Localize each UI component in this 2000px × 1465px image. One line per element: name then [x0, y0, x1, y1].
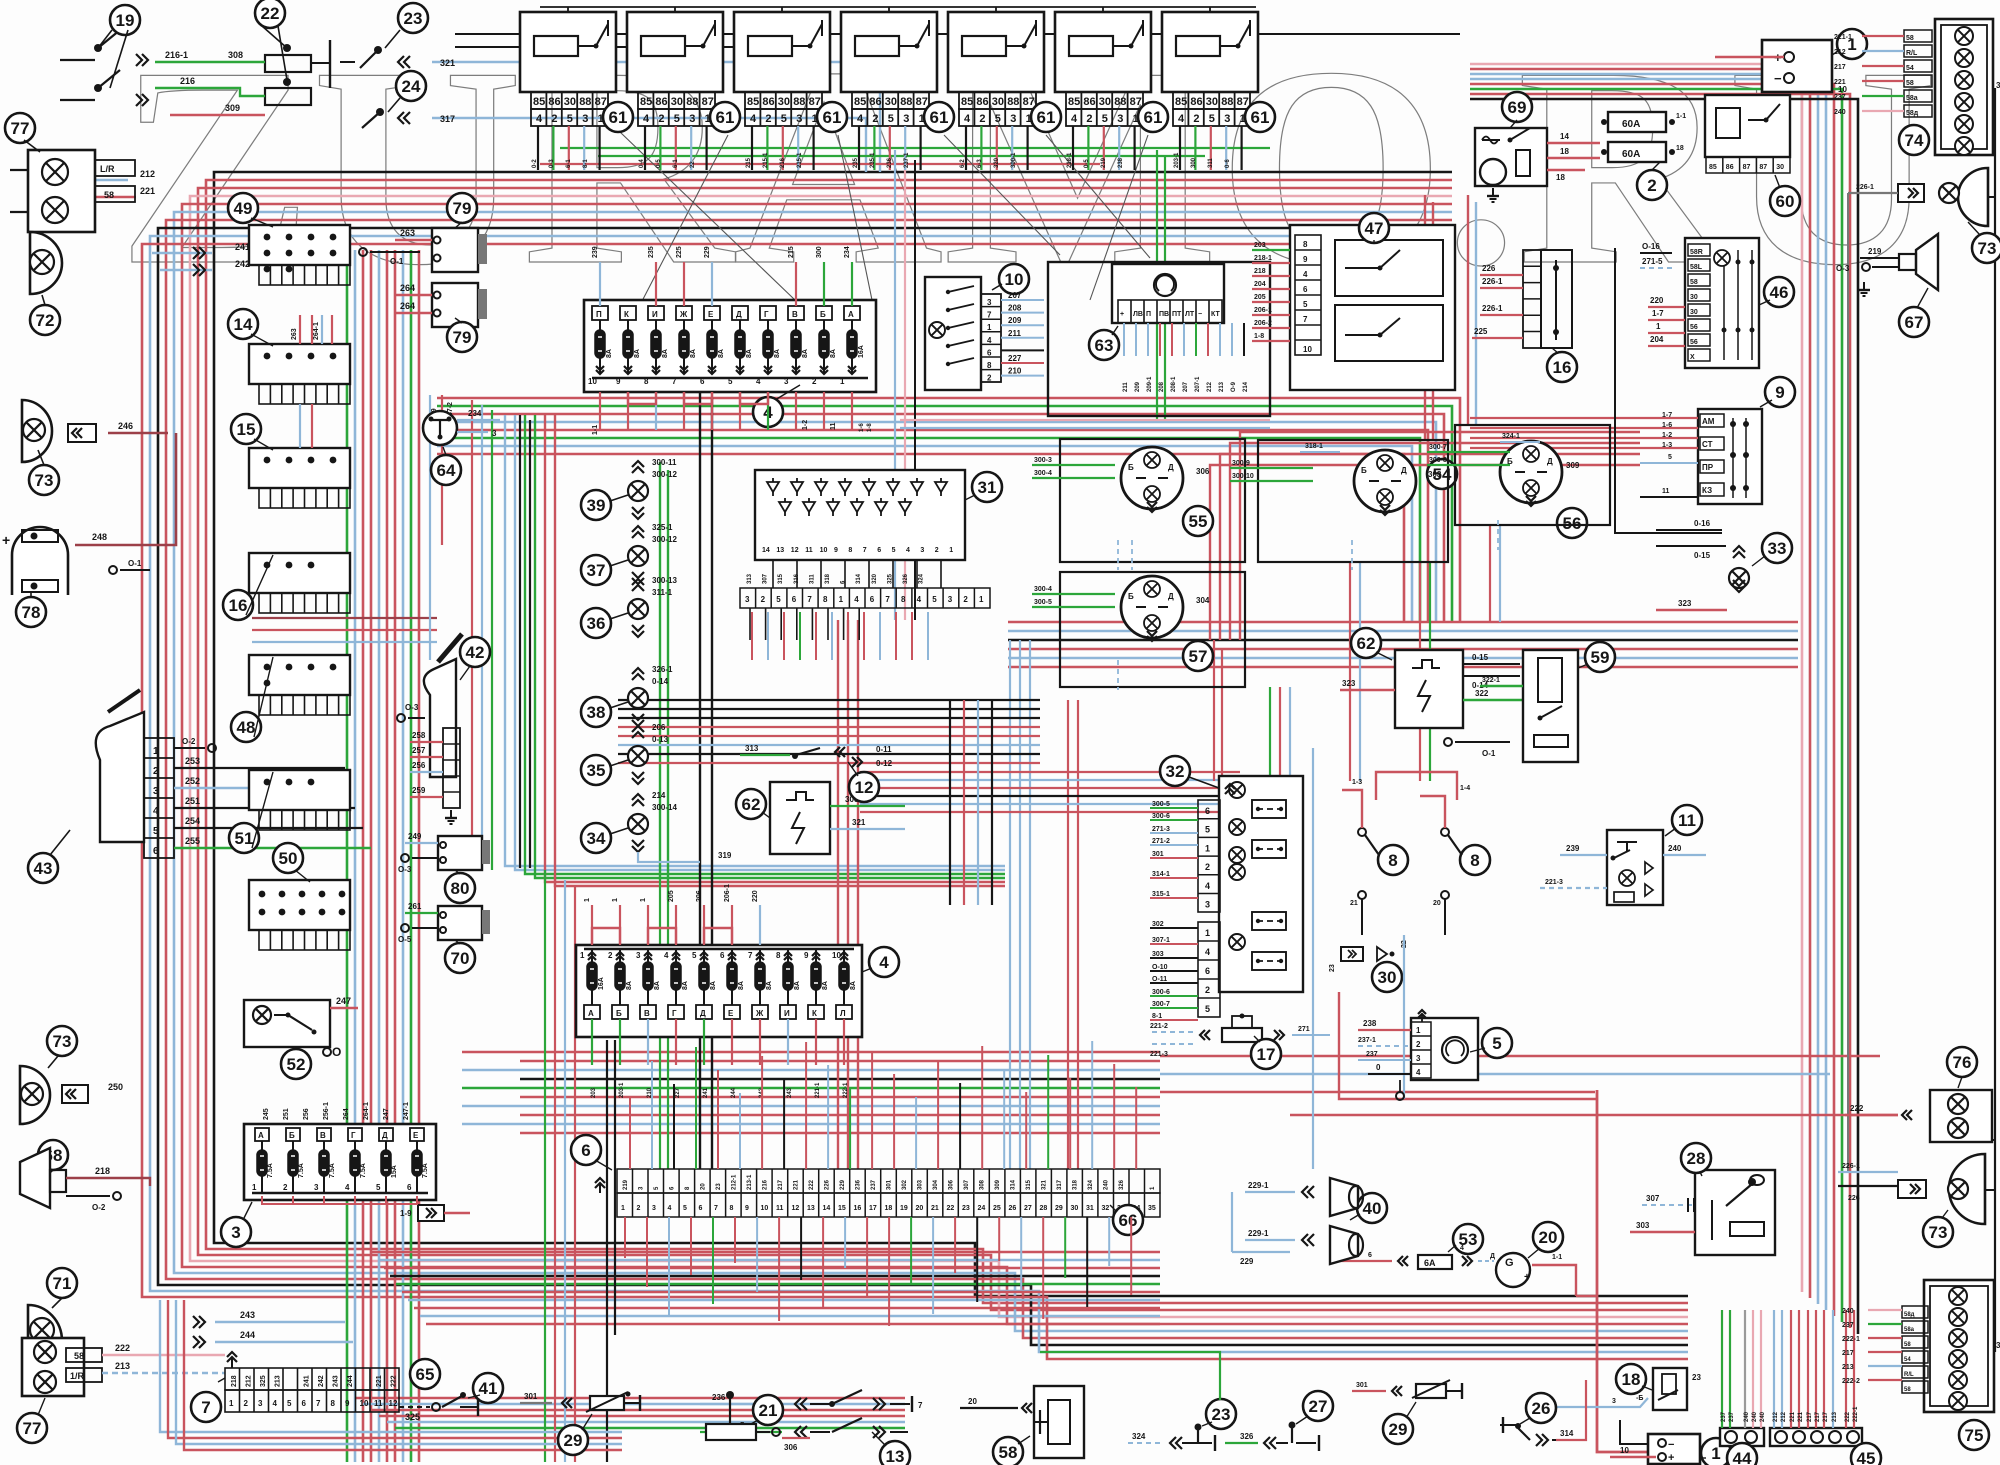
- svg-text:311: 311: [809, 574, 815, 584]
- svg-text:3: 3: [1010, 113, 1016, 125]
- svg-text:217: 217: [1807, 1411, 1813, 1422]
- svg-text:1-4: 1-4: [1460, 785, 1470, 792]
- svg-text:45: 45: [1857, 1449, 1876, 1465]
- svg-text:23: 23: [1329, 964, 1336, 972]
- svg-text:11: 11: [1662, 488, 1670, 495]
- svg-text:226: 226: [1848, 1195, 1860, 1202]
- svg-text:325: 325: [260, 1375, 267, 1387]
- svg-text:261: 261: [408, 902, 422, 911]
- svg-text:10: 10: [761, 1205, 769, 1212]
- lamp unit 77 bottom-left twin: [22, 1338, 84, 1396]
- svg-text:3: 3: [314, 1183, 319, 1192]
- svg-text:5: 5: [892, 547, 896, 554]
- svg-text:2: 2: [979, 113, 985, 125]
- svg-text:9: 9: [804, 951, 809, 960]
- svg-text:324: 324: [919, 573, 925, 584]
- svg-text:222: 222: [1850, 1104, 1864, 1113]
- svg-text:218: 218: [95, 1166, 110, 1176]
- svg-text:208: 208: [1008, 304, 1022, 313]
- svg-text:31: 31: [1996, 1341, 2000, 1350]
- svg-text:85: 85: [1709, 164, 1717, 171]
- svg-text:87: 87: [595, 96, 607, 108]
- svg-text:24: 24: [978, 1205, 986, 1212]
- svg-text:301: 301: [1152, 851, 1164, 858]
- svg-text:8А: 8А: [634, 349, 641, 358]
- headlight switch block 10: [925, 277, 981, 390]
- svg-text:213: 213: [1842, 1364, 1854, 1371]
- svg-text:8А: 8А: [710, 981, 717, 990]
- svg-text:3: 3: [920, 547, 924, 554]
- svg-text:6: 6: [792, 595, 797, 604]
- svg-text:0-16: 0-16: [1694, 519, 1711, 528]
- wire lower-mid verticals continuing to bottom: [544, 870, 546, 1462]
- svg-text:X: X: [1690, 354, 1695, 361]
- svg-text:315-1: 315-1: [1152, 891, 1170, 898]
- turn flasher block 63: [1112, 264, 1224, 323]
- starter relay 60: [1705, 95, 1790, 157]
- svg-text:256-1: 256-1: [323, 1102, 330, 1120]
- svg-text:235: 235: [648, 246, 655, 258]
- svg-text:6: 6: [870, 595, 875, 604]
- svg-text:10: 10: [1005, 270, 1024, 289]
- svg-text:1-8: 1-8: [867, 423, 873, 432]
- svg-text:+: +: [1668, 1452, 1674, 1464]
- lamp 73 lower-left: [47, 1026, 77, 1056]
- switch 13 group: [880, 1441, 910, 1465]
- svg-text:O-10: O-10: [1152, 964, 1168, 971]
- svg-text:20: 20: [701, 1183, 707, 1190]
- svg-text:326: 326: [903, 573, 909, 584]
- switches 8 pair: [1378, 845, 1408, 875]
- svg-text:11: 11: [805, 547, 813, 554]
- svg-text:85: 85: [1068, 96, 1080, 108]
- svg-text:4: 4: [1178, 113, 1185, 125]
- svg-text:O-3: O-3: [398, 865, 412, 874]
- svg-text:5: 5: [376, 1183, 381, 1192]
- svg-text:214: 214: [652, 791, 666, 800]
- wire gauge-to-32 verticals: [1269, 687, 1271, 781]
- svg-text:Б: Б: [289, 1131, 295, 1140]
- svg-text:15: 15: [237, 420, 256, 439]
- svg-text:212: 212: [140, 169, 155, 179]
- svg-text:300-12: 300-12: [652, 470, 677, 479]
- svg-text:29: 29: [1055, 1205, 1063, 1212]
- svg-text:O: O: [332, 1045, 341, 1059]
- svg-text:30: 30: [1776, 164, 1784, 171]
- svg-text:1-2: 1-2: [802, 420, 809, 430]
- svg-text:61: 61: [823, 108, 842, 127]
- svg-text:10: 10: [1838, 85, 1847, 94]
- svg-text:31: 31: [1086, 1205, 1094, 1212]
- indicator lamp 39: [581, 490, 611, 520]
- svg-text:−: −: [1668, 1439, 1674, 1451]
- turn flasher block 63 frame: [1048, 262, 1270, 416]
- svg-text:4: 4: [536, 113, 543, 125]
- svg-text:258: 258: [412, 731, 426, 740]
- svg-text:5: 5: [1205, 1004, 1210, 1014]
- svg-text:+: +: [2, 532, 10, 548]
- svg-text:221-1: 221-1: [1834, 34, 1852, 41]
- wire 309 red: [170, 114, 265, 116]
- svg-text:234: 234: [468, 409, 482, 418]
- svg-text:222: 222: [115, 1343, 130, 1353]
- svg-text:311: 311: [1208, 158, 1214, 168]
- switch item 23 top-left: [398, 3, 428, 33]
- svg-text:П: П: [1146, 311, 1151, 318]
- svg-text:3: 3: [652, 1205, 656, 1212]
- svg-text:63: 63: [1095, 336, 1114, 355]
- svg-text:13: 13: [886, 1447, 905, 1465]
- svg-text:300-8: 300-8: [1429, 457, 1447, 464]
- gauge 56: [1500, 441, 1562, 503]
- svg-text:212: 212: [1773, 1411, 1779, 1422]
- svg-text:17: 17: [869, 1205, 877, 1212]
- svg-text:4: 4: [879, 953, 889, 972]
- svg-text:29: 29: [1389, 1420, 1408, 1439]
- svg-text:4: 4: [964, 113, 971, 125]
- svg-text:87: 87: [1743, 164, 1751, 171]
- svg-text:71: 71: [53, 1274, 72, 1293]
- lamp 33: [1615, 248, 1722, 533]
- svg-text:7: 7: [885, 595, 890, 604]
- svg-text:237: 237: [1366, 1051, 1378, 1058]
- svg-text:4: 4: [906, 547, 910, 554]
- svg-text:20: 20: [1539, 1228, 1558, 1247]
- svg-text:O-1: O-1: [1482, 749, 1496, 758]
- wires between left column blocks: [299, 315, 301, 344]
- svg-text:226-1: 226-1: [1842, 1163, 1860, 1170]
- svg-text:238: 238: [1118, 157, 1124, 168]
- svg-text:300-4: 300-4: [1034, 470, 1052, 477]
- svg-text:264-1: 264-1: [313, 322, 320, 340]
- svg-text:237: 237: [1842, 1322, 1854, 1329]
- svg-text:3: 3: [1224, 113, 1230, 125]
- svg-text:30: 30: [885, 96, 897, 108]
- svg-text:3: 3: [796, 113, 802, 125]
- svg-text:86: 86: [1190, 96, 1202, 108]
- svg-text:237: 237: [1834, 94, 1846, 101]
- lamp 73 left front: [22, 400, 52, 462]
- svg-text:5: 5: [1668, 454, 1672, 461]
- svg-text:306: 306: [949, 1179, 955, 1190]
- svg-text:242: 242: [318, 1375, 325, 1387]
- svg-text:218-1: 218-1: [1067, 152, 1073, 168]
- svg-text:304: 304: [1196, 596, 1210, 605]
- svg-text:209-1: 209-1: [1147, 376, 1153, 392]
- svg-text:207: 207: [1183, 381, 1189, 392]
- svg-text:1: 1: [621, 1205, 625, 1212]
- black interconnects 31-strip: [772, 560, 774, 588]
- svg-text:1: 1: [584, 898, 591, 902]
- svg-text:5: 5: [692, 951, 697, 960]
- lamp 73 right lower dome: [1949, 1154, 1985, 1224]
- svg-text:303: 303: [1636, 1221, 1650, 1230]
- relay K2 (top row): [627, 12, 723, 92]
- wire band G mid horizontal: [437, 398, 1460, 622]
- svg-text:244: 244: [731, 1087, 737, 1098]
- svg-text:256: 256: [303, 1108, 310, 1120]
- ammeter shunt item 1 battery top-right: [1762, 40, 1832, 92]
- svg-text:212: 212: [246, 1375, 253, 1387]
- svg-text:3: 3: [231, 1223, 240, 1242]
- svg-text:4: 4: [987, 336, 992, 345]
- svg-text:203-1: 203-1: [619, 1082, 625, 1098]
- svg-text:8А: 8А: [718, 349, 725, 358]
- svg-text:271-2: 271-2: [1152, 838, 1170, 845]
- svg-text:9: 9: [834, 547, 838, 554]
- wire second vertical bundle B: [346, 250, 349, 1462]
- svg-text:221: 221: [1834, 79, 1846, 86]
- svg-text:0-3: 0-3: [549, 159, 555, 168]
- svg-text:1-9: 1-9: [400, 1209, 412, 1218]
- svg-text:85: 85: [533, 96, 545, 108]
- svg-text:11: 11: [374, 1399, 383, 1408]
- svg-text:17: 17: [1257, 1045, 1276, 1064]
- svg-text:61: 61: [1037, 108, 1056, 127]
- wire 249 247-2 verticals: [429, 420, 431, 660]
- fuse 60A block 2: [1608, 112, 1666, 132]
- svg-text:300: 300: [1191, 157, 1197, 168]
- switch 26 bottom right: [1526, 1393, 1556, 1423]
- svg-text:0-6: 0-6: [1225, 159, 1231, 168]
- svg-text:221-2: 221-2: [1150, 1023, 1168, 1030]
- svg-text:4: 4: [664, 951, 669, 960]
- ignition switch block 9: [1698, 409, 1762, 504]
- svg-text:15: 15: [838, 1205, 846, 1212]
- svg-text:8А: 8А: [794, 981, 801, 990]
- svg-text:226: 226: [825, 1179, 831, 1190]
- svg-text:4: 4: [273, 1399, 278, 1408]
- svg-text:Е: Е: [413, 1131, 419, 1140]
- wire mid-right verticals to strip: [1009, 640, 1011, 1169]
- svg-text:O-3: O-3: [405, 703, 419, 712]
- svg-text:2: 2: [1416, 1040, 1421, 1049]
- svg-text:241: 241: [235, 242, 250, 252]
- svg-text:4: 4: [643, 113, 650, 125]
- svg-text:1-1: 1-1: [592, 425, 599, 435]
- svg-text:65: 65: [416, 1365, 435, 1384]
- svg-text:15А: 15А: [391, 1165, 398, 1178]
- svg-text:КТ: КТ: [1211, 311, 1220, 318]
- svg-text:23: 23: [1692, 1373, 1701, 1382]
- svg-text:4: 4: [917, 595, 922, 604]
- svg-text:246: 246: [118, 421, 133, 431]
- svg-text:241: 241: [703, 1087, 709, 1098]
- svg-text:8А: 8А: [690, 349, 697, 358]
- svg-text:62: 62: [742, 795, 761, 814]
- svg-text:1-1: 1-1: [1552, 1254, 1562, 1261]
- fuse box 4 lower (10 fuses): [576, 945, 862, 1037]
- svg-text:72: 72: [36, 311, 55, 330]
- svg-text:70: 70: [451, 949, 470, 968]
- svg-text:79: 79: [453, 199, 472, 218]
- svg-text:8: 8: [1303, 240, 1308, 249]
- svg-text:73: 73: [35, 471, 54, 490]
- svg-text:325: 325: [405, 1412, 420, 1422]
- svg-text:221: 221: [376, 1375, 383, 1387]
- svg-text:4: 4: [1205, 947, 1210, 957]
- svg-text:314: 314: [856, 573, 862, 584]
- svg-text:8А: 8А: [626, 981, 633, 990]
- switch 23 bottom: [1206, 1399, 1236, 1429]
- svg-text:32: 32: [1166, 762, 1185, 781]
- wire 318-1 324-1: [1300, 451, 1340, 453]
- wire stubs above fuse 4 lower: [591, 905, 593, 945]
- svg-text:315: 315: [778, 573, 784, 584]
- connector 44: [1720, 1428, 1764, 1446]
- svg-text:7: 7: [714, 1205, 718, 1212]
- svg-text:А: А: [588, 1009, 594, 1018]
- svg-text:77: 77: [11, 119, 30, 138]
- svg-text:7.5А: 7.5А: [329, 1163, 336, 1178]
- svg-text:6: 6: [581, 1141, 590, 1160]
- switch 12: [796, 748, 820, 755]
- svg-text:6: 6: [407, 1183, 412, 1192]
- svg-text:58: 58: [74, 1351, 84, 1361]
- svg-text:205: 205: [668, 890, 675, 902]
- svg-text:5: 5: [153, 826, 159, 837]
- svg-text:229: 229: [1240, 1257, 1254, 1266]
- svg-text:8А: 8А: [682, 981, 689, 990]
- svg-text:252: 252: [185, 776, 200, 786]
- lamp 78 parking with plus: [12, 527, 68, 595]
- svg-text:2: 2: [244, 1399, 249, 1408]
- svg-text:87: 87: [1237, 96, 1249, 108]
- svg-text:1: 1: [1205, 843, 1210, 853]
- svg-text:226-1: 226-1: [1482, 304, 1503, 313]
- svg-text:16А: 16А: [858, 345, 865, 358]
- svg-text:9: 9: [745, 1205, 749, 1212]
- svg-text:242: 242: [235, 259, 250, 269]
- svg-text:3: 3: [1117, 113, 1123, 125]
- svg-text:33: 33: [1768, 539, 1787, 558]
- svg-text:1-7: 1-7: [1652, 309, 1664, 318]
- svg-text:88: 88: [793, 96, 805, 108]
- svg-text:21: 21: [1350, 900, 1358, 907]
- svg-text:7: 7: [807, 595, 812, 604]
- wire stubs below fuse box 4 upper: [599, 392, 601, 430]
- svg-text:240: 240: [1842, 1308, 1854, 1315]
- svg-text:1: 1: [580, 951, 585, 960]
- svg-text:324: 324: [1132, 1432, 1146, 1441]
- svg-text:7.5А: 7.5А: [360, 1163, 367, 1178]
- svg-text:88: 88: [1221, 96, 1233, 108]
- svg-text:326-1: 326-1: [652, 665, 673, 674]
- relay block 47: [1290, 225, 1455, 390]
- svg-text:263: 263: [400, 228, 415, 238]
- gauge 54: [1354, 450, 1416, 512]
- svg-text:10: 10: [1620, 1446, 1629, 1455]
- svg-text:8А: 8А: [802, 349, 809, 358]
- svg-text:26: 26: [1009, 1205, 1017, 1212]
- svg-text:300-3: 300-3: [1034, 457, 1052, 464]
- connector block 49: [249, 225, 350, 265]
- svg-text:235: 235: [853, 157, 859, 168]
- svg-text:240: 240: [1668, 844, 1682, 853]
- lamp 72 side marker dome: [30, 232, 62, 294]
- wire green runs under relays: [560, 147, 1270, 149]
- svg-text:302: 302: [1152, 921, 1164, 928]
- head lamp cluster 74 right edge: [1935, 19, 1993, 155]
- svg-text:239: 239: [1566, 844, 1580, 853]
- svg-text:39: 39: [587, 496, 606, 515]
- svg-text:253: 253: [185, 756, 200, 766]
- node 61 label relay K1: [603, 102, 633, 132]
- svg-text:Е: Е: [708, 310, 714, 319]
- svg-text:ПТ: ПТ: [1172, 311, 1182, 318]
- svg-text:Д: Д: [1490, 1253, 1495, 1260]
- svg-text:205: 205: [1254, 294, 1266, 301]
- svg-text:325: 325: [887, 573, 893, 584]
- svg-text:31: 31: [1996, 81, 2000, 90]
- svg-text:19: 19: [116, 11, 135, 30]
- wire pink pair below frame 63: [900, 419, 1270, 421]
- svg-text:80: 80: [451, 879, 470, 898]
- wire left horizontal trio: [252, 617, 437, 619]
- svg-text:240: 240: [1834, 109, 1846, 116]
- svg-text:22: 22: [261, 4, 280, 23]
- connector block 16a: [249, 553, 350, 593]
- wire 216-1 308 green: [155, 61, 265, 63]
- svg-text:П: П: [596, 310, 602, 319]
- wire 319: [638, 852, 700, 862]
- svg-text:3: 3: [903, 113, 909, 125]
- svg-text:18: 18: [885, 1205, 893, 1212]
- svg-text:14: 14: [1560, 132, 1569, 141]
- svg-text:1: 1: [949, 547, 953, 554]
- svg-text:243: 243: [787, 1087, 793, 1098]
- svg-text:В: В: [792, 310, 798, 319]
- svg-text:0-12: 0-12: [876, 759, 893, 768]
- svg-text:227: 227: [675, 1087, 681, 1098]
- light switch block 46: [1685, 238, 1759, 368]
- svg-text:212-1: 212-1: [732, 1174, 738, 1190]
- svg-text:264: 264: [400, 301, 415, 311]
- svg-text:222-1: 222-1: [1853, 1406, 1859, 1422]
- svg-text:6А: 6А: [1424, 1258, 1436, 1268]
- node 61 label relay K5: [1031, 102, 1061, 132]
- wire red U jumpers below fuse 4 upper: [628, 392, 656, 404]
- svg-text:263: 263: [291, 328, 298, 340]
- svg-text:14: 14: [234, 315, 253, 334]
- svg-text:2: 2: [872, 113, 878, 125]
- svg-text:259: 259: [412, 786, 426, 795]
- svg-text:26: 26: [1532, 1399, 1551, 1418]
- svg-text:52: 52: [287, 1055, 306, 1074]
- relay K1 (top row): [520, 12, 616, 92]
- svg-text:20: 20: [968, 1397, 977, 1406]
- wiper motor block 5: [1411, 1018, 1478, 1080]
- svg-text:8: 8: [823, 595, 828, 604]
- svg-text:O-2: O-2: [182, 737, 196, 746]
- svg-text:21: 21: [759, 1401, 778, 1420]
- svg-text:212: 212: [1781, 1411, 1787, 1422]
- svg-text:300-9: 300-9: [1232, 460, 1250, 467]
- svg-text:А: А: [258, 1131, 264, 1140]
- gauge wires green: [1032, 464, 1115, 466]
- svg-text:8: 8: [848, 547, 852, 554]
- wire black pair verticals center-left: [519, 415, 521, 868]
- svg-text:28: 28: [1687, 1149, 1706, 1168]
- svg-text:6: 6: [1205, 806, 1210, 816]
- svg-text:1: 1: [1656, 322, 1661, 331]
- svg-text:209: 209: [1135, 381, 1141, 392]
- svg-text:4: 4: [854, 595, 859, 604]
- wire stubs below relay K1: [537, 126, 539, 170]
- svg-text:238: 238: [1363, 1019, 1377, 1028]
- svg-text:220: 220: [752, 890, 759, 902]
- svg-text:77: 77: [23, 1419, 42, 1438]
